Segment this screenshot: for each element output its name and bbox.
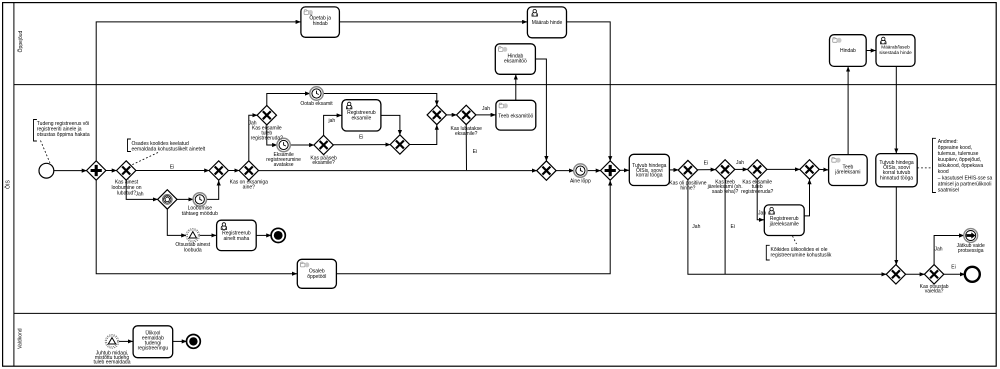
svg-text:saab teha)?: saab teha)? bbox=[712, 189, 739, 195]
svg-text:Jah: Jah bbox=[482, 106, 490, 112]
svg-text:sisestada hinde: sisestada hinde bbox=[879, 50, 912, 55]
svg-text:Jah: Jah bbox=[934, 246, 942, 252]
svg-text:saatmisel: saatmisel bbox=[938, 187, 959, 193]
svg-text:hinne?: hinne? bbox=[680, 186, 695, 192]
svg-text:Ei: Ei bbox=[473, 149, 477, 155]
svg-text:jah: jah bbox=[327, 118, 335, 124]
svg-text:Ootab eksamit: Ootab eksamit bbox=[300, 101, 333, 107]
svg-text:protsessiga: protsessiga bbox=[958, 248, 984, 254]
svg-text:Jah: Jah bbox=[692, 224, 700, 230]
svg-text:Jah: Jah bbox=[248, 120, 256, 126]
svg-text:Määrab/laseb: Määrab/laseb bbox=[881, 45, 910, 50]
svg-text:eksamile?: eksamile? bbox=[312, 160, 335, 166]
svg-text:aine?: aine? bbox=[243, 185, 255, 191]
svg-text:Määrab hinde: Määrab hinde bbox=[532, 20, 563, 26]
svg-text:ÕIS: ÕIS bbox=[5, 180, 12, 189]
svg-text:Valdkond: Valdkond bbox=[18, 328, 24, 349]
svg-text:Ei: Ei bbox=[731, 224, 735, 230]
svg-text:ainelt maha: ainelt maha bbox=[223, 236, 249, 242]
svg-text:eksamile?: eksamile? bbox=[455, 131, 478, 137]
svg-text:Aine lõpp: Aine lõpp bbox=[570, 179, 591, 185]
svg-text:Ei: Ei bbox=[951, 265, 955, 271]
svg-text:järeleksami: järeleksami bbox=[834, 170, 860, 176]
svg-text:registreeruda?: registreeruda? bbox=[251, 135, 283, 141]
svg-text:õppetööl: õppetööl bbox=[307, 274, 326, 280]
svg-text:hinnatud tööga: hinnatud tööga bbox=[880, 175, 913, 181]
svg-text:registreeringu: registreeringu bbox=[138, 346, 169, 352]
svg-text:registreeruda?: registreeruda? bbox=[741, 189, 773, 195]
svg-text:Hindab: Hindab bbox=[840, 48, 856, 54]
svg-text:registreerumine kohustuslik: registreerumine kohustuslik bbox=[771, 252, 832, 258]
svg-text:Ei: Ei bbox=[704, 160, 708, 166]
svg-text:Ei: Ei bbox=[359, 135, 363, 141]
svg-text:tuleb eemaldada: tuleb eemaldada bbox=[94, 359, 131, 365]
svg-text:Teeb eksamitöö: Teeb eksamitöö bbox=[498, 114, 533, 120]
svg-text:Jah: Jah bbox=[736, 160, 744, 166]
svg-text:eksamile: eksamile bbox=[352, 115, 372, 121]
svg-text:lubatud?: lubatud? bbox=[117, 190, 136, 196]
svg-text:loobuda: loobuda bbox=[184, 247, 202, 253]
svg-text:vaielda?: vaielda? bbox=[925, 289, 944, 295]
svg-text:eemaldada kohustuslikelt ainet: eemaldada kohustuslikelt ainetelt bbox=[132, 147, 206, 153]
svg-text:Õppejõud: Õppejõud bbox=[17, 30, 24, 52]
svg-text:Ei: Ei bbox=[170, 165, 174, 171]
svg-text:Jah: Jah bbox=[135, 192, 143, 198]
svg-text:eksamitöö: eksamitöö bbox=[504, 59, 527, 65]
svg-text:tähtaeg möödub: tähtaeg möödub bbox=[182, 211, 218, 217]
svg-text:järeleksamile: järeleksamile bbox=[769, 222, 799, 228]
svg-text:otsustas õppima hakata: otsustas õppima hakata bbox=[37, 132, 90, 138]
svg-text:avatakse: avatakse bbox=[274, 162, 294, 168]
svg-text:Jah: Jah bbox=[758, 211, 766, 217]
svg-text:korral tööga: korral tööga bbox=[636, 172, 663, 178]
svg-text:hindab: hindab bbox=[313, 21, 328, 27]
